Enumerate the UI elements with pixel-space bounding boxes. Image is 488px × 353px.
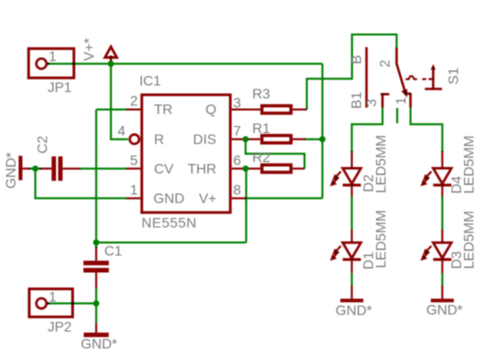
wire JP2 pin horizontal <box>48 302 97 304</box>
resistor R2 <box>247 165 305 172</box>
svg-text:5: 5 <box>130 152 138 168</box>
node junction DIS pin7 <box>243 136 249 142</box>
capacitor C1 <box>83 247 108 288</box>
svg-text:1: 1 <box>393 97 409 105</box>
svg-text:4: 4 <box>118 122 126 138</box>
svg-text:GND: GND <box>153 190 184 206</box>
svg-text:2: 2 <box>130 93 138 109</box>
svg-text:3: 3 <box>233 95 241 111</box>
node junction JP2 <box>93 300 99 306</box>
ground GND* left flag <box>19 156 31 180</box>
pin 4 inversion bubble <box>130 135 139 144</box>
svg-text:R2: R2 <box>252 149 270 165</box>
LED D4 <box>421 151 452 197</box>
ground GND* below D3 <box>431 286 454 303</box>
wire Q net R3 up and over to switch <box>307 35 397 110</box>
LED D3 <box>421 230 452 274</box>
switch S1 pole bar <box>365 47 367 108</box>
svg-text:TR: TR <box>154 101 173 117</box>
node junction C1 top <box>93 239 99 245</box>
ground GND* below JP2 <box>84 323 109 337</box>
svg-text:S1: S1 <box>445 67 461 84</box>
connector JP1 <box>29 49 74 78</box>
svg-text:JP1: JP1 <box>48 79 72 95</box>
svg-text:LED5MM: LED5MM <box>460 135 476 193</box>
svg-text:1: 1 <box>49 48 57 64</box>
pin 8 stub <box>232 197 247 199</box>
wire V+ drop to reset pin <box>111 64 128 139</box>
LED D2 <box>330 151 361 197</box>
wire GND down jog at C2 <box>35 169 126 199</box>
pin 3 stub <box>232 109 247 111</box>
ground GND* below D1 <box>340 286 363 303</box>
svg-text:1: 1 <box>49 289 57 305</box>
node junction THR pin6 <box>243 166 249 172</box>
wire V+ net top horizontal JP1 to right <box>48 63 323 65</box>
switch actuator dash 1 <box>422 78 426 80</box>
resistor R1 <box>247 136 306 143</box>
svg-text:8: 8 <box>233 182 241 198</box>
pin 6 stub <box>232 168 247 170</box>
switch actuator squiggle <box>406 76 417 79</box>
wire D3 to ground <box>441 273 443 285</box>
op-amp timer IC1 NE555N body <box>142 95 231 213</box>
wire D1 to ground <box>351 273 353 285</box>
svg-text:GND*: GND* <box>336 302 373 318</box>
wire switch throw 1 down to D4 column <box>411 108 443 152</box>
wire TR pin2 horizontal <box>96 109 126 111</box>
svg-text:B1: B1 <box>348 92 364 109</box>
svg-text:Q: Q <box>206 101 217 117</box>
svg-text:GND*: GND* <box>3 152 19 189</box>
pin 2 stub <box>126 109 140 111</box>
svg-text:7: 7 <box>233 123 241 139</box>
node junction V+ at JP1 <box>108 61 114 67</box>
switch actuator stem <box>425 64 442 89</box>
svg-text:R1: R1 <box>252 120 270 136</box>
svg-text:GND*: GND* <box>426 302 463 318</box>
svg-text:R: R <box>154 131 164 147</box>
wire DIS jog to R2 right <box>246 139 305 168</box>
node junction C2 GND <box>32 166 38 172</box>
switch actuator dash 2 <box>429 78 434 80</box>
wire R1 right to V+ vertical <box>305 138 322 140</box>
wire GND*-C2-CV horizontal <box>30 168 42 170</box>
svg-text:LED5MM: LED5MM <box>372 135 388 193</box>
svg-text:1: 1 <box>130 182 138 198</box>
wire switch middle stub <box>396 108 398 123</box>
svg-text:JP2: JP2 <box>48 318 72 334</box>
svg-text:2: 2 <box>377 60 393 68</box>
svg-text:THR: THR <box>188 160 217 176</box>
wire C1 to JP2 ground vertical <box>95 288 97 323</box>
pin 5 stub <box>126 168 140 170</box>
switch lever <box>397 64 411 98</box>
svg-text:B: B <box>348 55 364 64</box>
pin 1 stub <box>126 197 140 199</box>
svg-text:CV: CV <box>154 160 174 176</box>
wire pin8 V+ horizontal <box>246 197 322 199</box>
capacitor C2 <box>40 156 81 180</box>
switch contact 2 <box>395 48 397 64</box>
wire TR vertical down to C1 <box>95 110 97 249</box>
svg-text:6: 6 <box>233 152 241 168</box>
svg-text:IC1: IC1 <box>139 72 161 88</box>
switch contact 1 <box>409 93 411 108</box>
switch contact 3 <box>381 93 390 108</box>
power symbol V+ <box>105 47 117 64</box>
wire switch throw 3 down to D2 column <box>352 108 383 152</box>
svg-text:NE555N: NE555N <box>142 215 197 231</box>
LED D1 <box>330 230 361 274</box>
svg-text:DIS: DIS <box>193 131 216 147</box>
node junction R1 to V+ <box>319 136 325 142</box>
wire THR to C1 horizontal <box>96 242 246 244</box>
svg-text:LED5MM: LED5MM <box>460 211 476 269</box>
svg-text:GND*: GND* <box>81 335 118 351</box>
wire THR vertical down <box>245 169 247 243</box>
svg-text:R3: R3 <box>252 86 270 102</box>
resistor R3 <box>247 106 307 113</box>
svg-text:3: 3 <box>363 99 379 107</box>
wire D2 to D1 <box>351 197 353 230</box>
svg-text:V+*: V+* <box>80 37 96 61</box>
svg-text:C1: C1 <box>104 243 122 259</box>
connector JP2 <box>29 289 72 317</box>
pin 7 stub <box>232 138 247 140</box>
wire V+ right vertical down to pin8 row <box>321 64 323 199</box>
svg-text:V+: V+ <box>199 190 217 206</box>
svg-text:LED5MM: LED5MM <box>372 210 388 268</box>
svg-text:C2: C2 <box>34 135 50 153</box>
wire D4 to D3 <box>441 197 443 230</box>
